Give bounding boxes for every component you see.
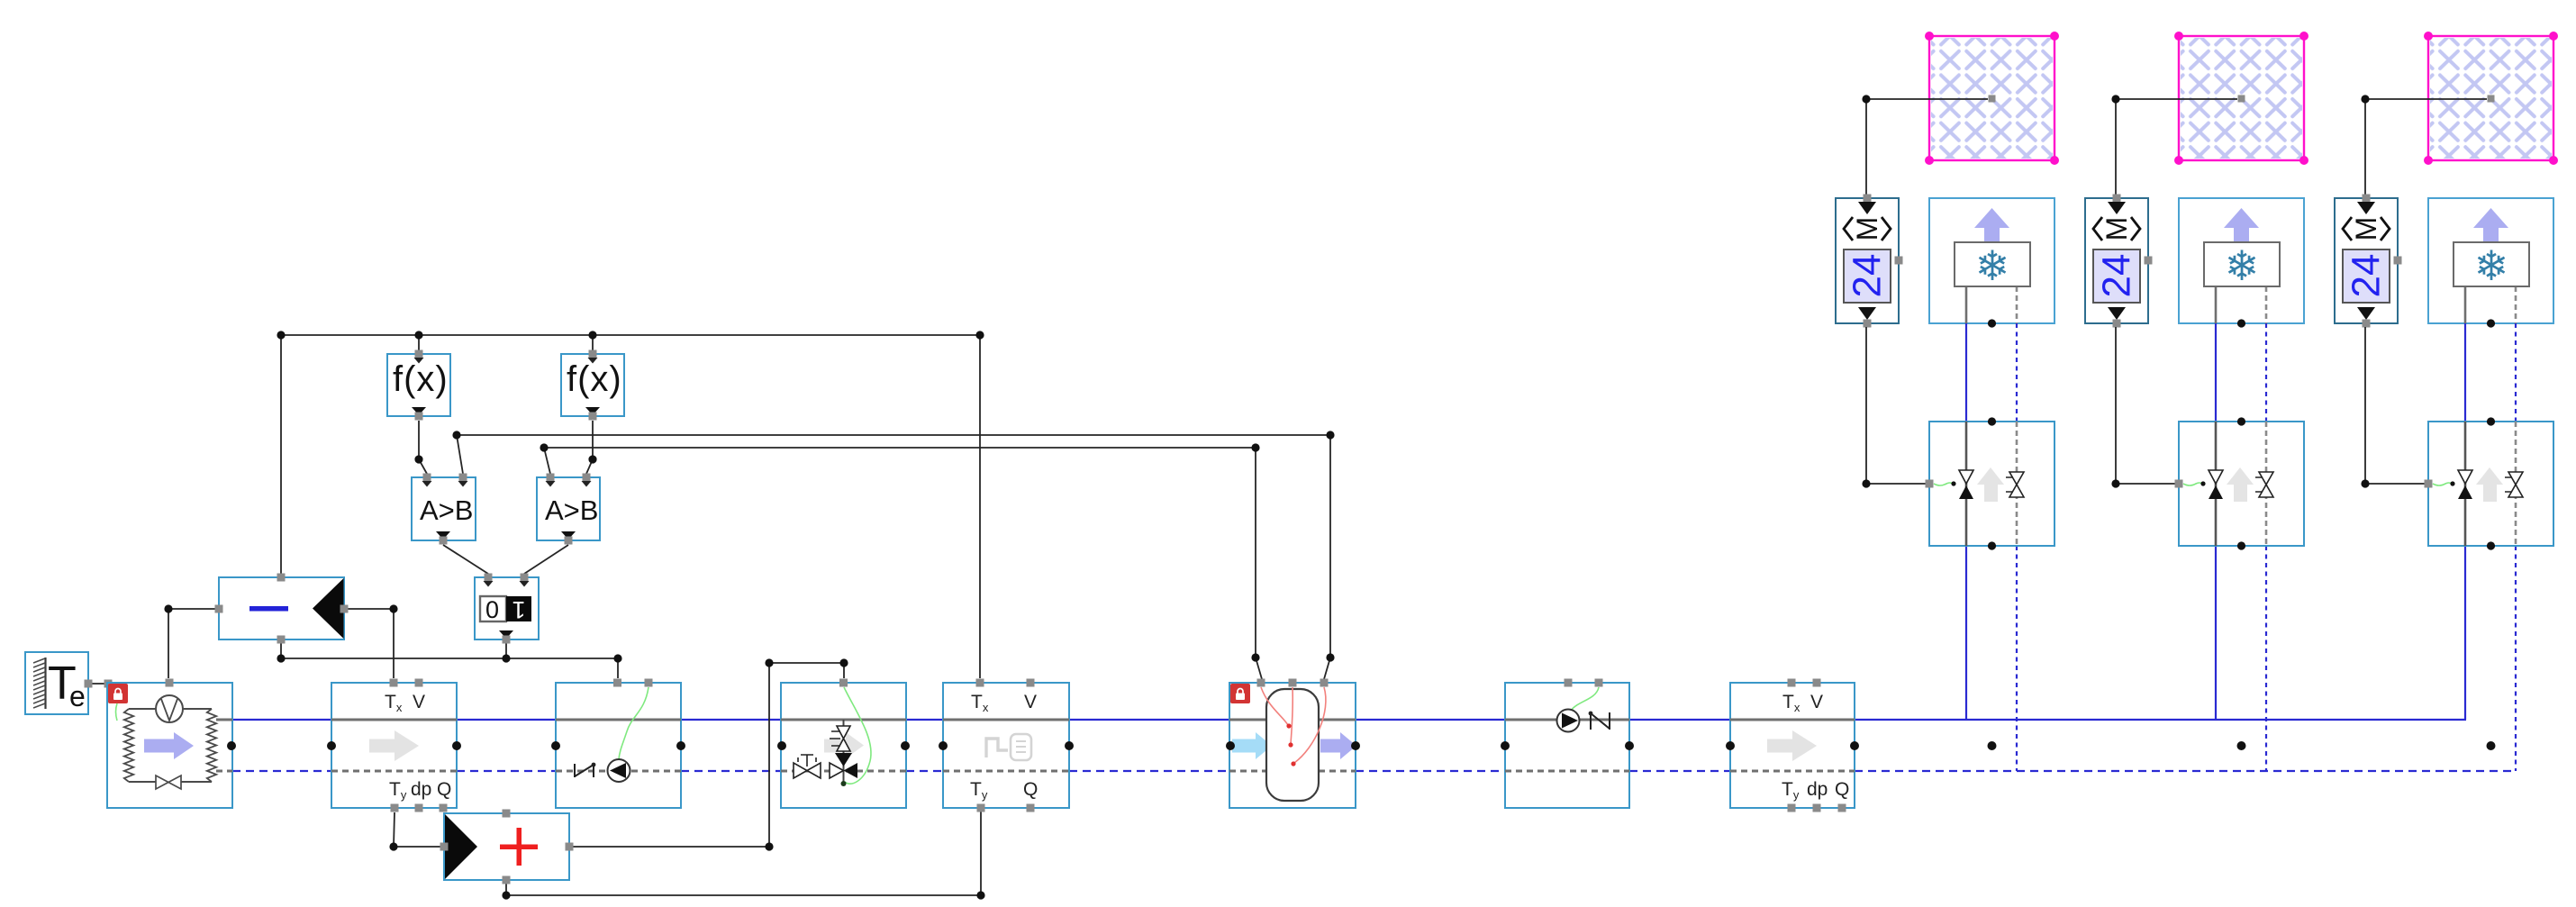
- sensor block S3 (Tx V / Ty dp Q): [1730, 679, 1855, 812]
- svg-text:1: 1: [512, 596, 525, 623]
- wire f(x)1 output to A>B1 input A: [419, 421, 427, 474]
- svg-text:dp: dp: [411, 779, 431, 800]
- wire supply pipe (blue solid): [232, 719, 2466, 721]
- buffer tank: [1229, 679, 1356, 809]
- node dots on pipe row (block edges): [227, 741, 1859, 750]
- function block f(x)2: [561, 350, 624, 421]
- svg-text:V: V: [413, 692, 425, 712]
- wire W3 tank sensor T2 to A>B2 input A: [544, 448, 1262, 679]
- minus block (subtract): [215, 574, 349, 644]
- outside temperature source Te: [25, 652, 113, 714]
- wire plus block lower output to S2 Ty: [506, 812, 981, 895]
- zone group 2 (middle): [2085, 32, 2308, 771]
- wire A>B2 output to 0/1 input: [524, 545, 568, 574]
- comparator A>B 2: [537, 474, 600, 545]
- heat pump: [107, 679, 232, 809]
- svg-text:V: V: [1024, 692, 1037, 712]
- zone group 1 (left): [1836, 32, 2059, 771]
- comparator A>B 1: [412, 474, 476, 545]
- sensor block S1 (Tx V / Ty dp Q): [331, 679, 457, 812]
- wire W4 0/1 output to pump P1 enable: [281, 639, 618, 678]
- wire return pipe (blue dashed): [232, 770, 2517, 772]
- wire Te to heat pump: [88, 683, 108, 685]
- wire S1 Ty to plus block: [394, 812, 440, 847]
- wire bus W1 (Tx signal to f(x) blocks and minus block): [281, 335, 980, 678]
- pump block P1 (return pump with check valve): [556, 679, 681, 809]
- svg-text:e: e: [69, 680, 86, 712]
- wire minus block output to heat pump: [168, 609, 219, 678]
- wire A>B1 output to 0/1 input: [443, 545, 488, 574]
- svg-text:dp: dp: [1807, 779, 1828, 800]
- wire minus block input from sensor S1 Tx: [344, 609, 394, 678]
- valve block V1 (3-way valve group on return): [781, 679, 906, 809]
- plus block (add): [440, 810, 574, 884]
- svg-text:Q: Q: [1835, 779, 1849, 800]
- zone group 3 (right): [2335, 32, 2558, 771]
- svg-text:A>B: A>B: [545, 494, 598, 526]
- svg-text:A>B: A>B: [420, 494, 473, 526]
- pump block P2 (supply pump with check valve): [1505, 679, 1629, 809]
- wire f(x)2 output to A>B2 input B: [586, 421, 593, 474]
- svg-text:Q: Q: [437, 779, 451, 800]
- svg-text:V: V: [1810, 692, 1823, 712]
- svg-text:f(x): f(x): [567, 359, 622, 399]
- svg-text:Q: Q: [1023, 779, 1038, 800]
- svg-text:f(x): f(x): [393, 359, 449, 399]
- wire plus block output to valve V1: [573, 663, 844, 847]
- svg-text:0: 0: [485, 596, 499, 623]
- switch block 0/1: [475, 574, 539, 644]
- function block f(x)1: [387, 350, 450, 421]
- wire W2 tank sensor T1 to A>B1 input B: [457, 435, 1330, 679]
- sensor block S2 (Tx V / Ty Q with log icon): [943, 679, 1069, 812]
